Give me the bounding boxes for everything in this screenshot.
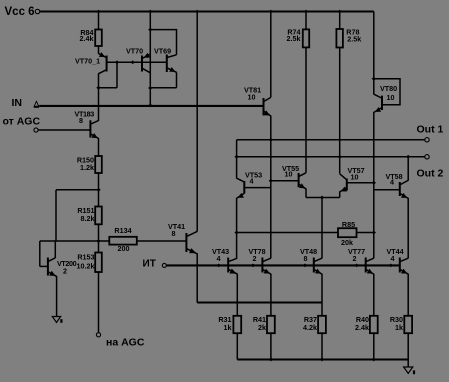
wire base bus — [107, 61, 167, 63]
svg-text:IN: IN — [12, 97, 23, 109]
wire VT44 emitter — [407, 274, 409, 316]
transistor VT57 — [340, 166, 365, 192]
resistor R78 — [336, 28, 361, 48]
resistor R153 — [77, 252, 102, 272]
svg-text:4: 4 — [250, 176, 254, 185]
node emitter join — [320, 196, 324, 200]
Out 2 terminal — [417, 155, 444, 180]
transistor VT53 — [237, 171, 263, 199]
node x150 bottom — [148, 86, 152, 90]
transistor VT55 — [282, 164, 306, 189]
wire branch down — [55, 190, 57, 241]
wire AGC base — [38, 129, 90, 131]
resistor R74 — [287, 28, 310, 48]
svg-text:4: 4 — [391, 254, 395, 263]
wire VT200 base stub — [40, 265, 48, 267]
transistor VT41 — [168, 222, 197, 254]
wire emitter join — [306, 197, 340, 199]
wire R41 bottom — [270, 333, 272, 359]
wire R84 top — [98, 12, 100, 30]
svg-text:8.2k: 8.2k — [81, 214, 95, 223]
svg-text:10: 10 — [351, 172, 359, 181]
wire Vcc corner down — [373, 12, 375, 95]
svg-text:2.4k: 2.4k — [80, 34, 94, 43]
transistor VT69 — [154, 47, 177, 73]
node Vcc-R84 — [96, 10, 100, 14]
node row241 — [96, 239, 100, 243]
ИТ terminal — [143, 258, 167, 269]
wire VT77 emitter — [373, 274, 375, 316]
wire row241 left — [40, 240, 110, 242]
transistor VT48 — [300, 247, 322, 274]
transistor VT58 — [386, 172, 409, 199]
wire R150-nodeA — [98, 173, 100, 207]
wire VT200 emitter — [56, 276, 58, 316]
wire VT58 emitter — [407, 198, 409, 258]
node bus R37 — [320, 358, 324, 362]
svg-text:2: 2 — [353, 254, 357, 263]
wire VT81 collector — [270, 12, 272, 98]
node base55 — [269, 179, 273, 183]
wire VT70_1 collector — [98, 73, 100, 88]
svg-text:8: 8 — [172, 229, 176, 238]
wire R85 right — [357, 232, 374, 234]
svg-text:4: 4 — [217, 254, 221, 263]
svg-text:8: 8 — [304, 254, 308, 263]
wire VT183 collector — [98, 88, 100, 121]
resistor R31 — [218, 315, 241, 333]
ground left — [52, 317, 62, 323]
resistor R134 — [109, 226, 137, 253]
svg-text:4.2k: 4.2k — [303, 323, 317, 332]
wire VT80 base loop — [374, 79, 400, 105]
svg-text:2.5k: 2.5k — [287, 34, 301, 43]
wire row241 right — [137, 240, 187, 242]
wire emitter bus — [197, 301, 322, 303]
svg-text:от AGC: от AGC — [3, 115, 41, 127]
node Vcc-R78 — [338, 10, 342, 14]
svg-text:1k: 1k — [224, 323, 232, 332]
svg-text:VT70: VT70 — [126, 47, 143, 56]
node ИТ VT48 — [303, 264, 307, 268]
wire IN line — [39, 105, 263, 107]
wire R85 left — [237, 232, 338, 234]
wire R31 bottom — [236, 333, 238, 359]
на AGC terminal — [96, 333, 144, 349]
resistor R37 — [303, 315, 326, 333]
wire R78 down — [339, 48, 341, 174]
wire VT81 emitter — [270, 116, 272, 140]
node Vcc-R74 — [304, 10, 308, 14]
wire R84 bottom — [98, 46, 100, 54]
svg-text:VT58: VT58 — [386, 172, 403, 181]
resistor R40 — [355, 315, 378, 333]
resistor R84 — [80, 28, 102, 46]
node VT80 loop — [372, 77, 376, 81]
wire Vcc rail — [40, 10, 374, 12]
node Vcc-VT41 — [195, 10, 199, 14]
svg-text:VT183: VT183 — [75, 109, 95, 118]
wire VT43 emitter — [236, 274, 238, 316]
svg-text:10: 10 — [387, 93, 395, 102]
svg-text:2: 2 — [253, 254, 257, 263]
wire R151 bottom — [98, 224, 100, 252]
wire VT55 emitter — [305, 189, 307, 198]
node Out2 left — [234, 155, 238, 159]
node IN junction — [148, 104, 152, 108]
wire Vcc drop x196 — [196, 12, 198, 232]
wire base net left — [270, 140, 272, 258]
node R85 right — [372, 231, 376, 235]
transistor VT183 — [75, 109, 99, 138]
wire VT80 emitter — [373, 112, 375, 258]
svg-text:VT44: VT44 — [387, 247, 404, 256]
wire branch left — [56, 189, 99, 191]
wire R30 bottom — [407, 333, 409, 359]
wire VT183 emitter — [98, 138, 100, 156]
wire Vcc drop x150 — [149, 12, 151, 106]
node R85 left — [234, 231, 238, 235]
svg-text:VT43: VT43 — [212, 247, 229, 256]
node Vcc-VT81 — [269, 10, 273, 14]
resistor R85 — [338, 220, 357, 247]
node Out2 VT58 — [406, 155, 410, 159]
svg-text:на AGC: на AGC — [106, 337, 145, 349]
wire VT48 emitter — [321, 274, 323, 316]
wire Out1 corner — [236, 140, 238, 179]
wire ИТ row — [166, 264, 399, 266]
transistor VT70_1 — [75, 52, 107, 74]
wire ground bus — [237, 358, 408, 360]
Out 1 terminal — [417, 124, 444, 142]
svg-text:Out 2: Out 2 — [417, 168, 444, 180]
node base mid — [131, 60, 135, 64]
node Out2 R78 — [338, 155, 342, 159]
node ИТ VT43 — [217, 264, 221, 268]
wire join down — [321, 198, 323, 259]
node ИТ VT78 — [251, 264, 255, 268]
node base tie — [115, 60, 119, 64]
wire VT55 base — [271, 180, 299, 182]
node bus R41 — [269, 358, 273, 362]
wire mirror right loop — [150, 72, 176, 88]
svg-text:10.2k: 10.2k — [77, 262, 95, 271]
svg-text:VT53: VT53 — [245, 171, 262, 180]
svg-text:10: 10 — [285, 170, 293, 179]
svg-text:Out 1: Out 1 — [417, 124, 444, 136]
node Vcc-mirror — [148, 10, 152, 14]
svg-text:VT80: VT80 — [380, 84, 397, 93]
transistor VT44 — [387, 247, 409, 274]
wire R74 down — [305, 47, 307, 172]
IN terminal — [12, 97, 40, 109]
wire R153 bottom — [98, 272, 100, 333]
svg-text:VT77: VT77 — [348, 247, 365, 256]
transistor VT43 — [212, 247, 237, 274]
wire VT58 base — [374, 189, 400, 191]
wire Out1 line — [237, 139, 425, 141]
svg-text:1k: 1k — [395, 323, 403, 332]
svg-text:R134: R134 — [114, 226, 131, 235]
transistor VT80 — [374, 84, 397, 113]
node VT70_1 col — [96, 86, 100, 90]
wire Out2 line — [237, 156, 425, 158]
svg-text:2.5k: 2.5k — [347, 35, 361, 44]
node ИТ VT44 — [389, 264, 393, 268]
wire VT69 top loop — [150, 30, 176, 55]
resistor R151 — [77, 206, 101, 225]
wire VT78 emitter — [270, 274, 272, 316]
ground right — [404, 367, 416, 374]
svg-text:ИТ: ИТ — [143, 258, 156, 269]
wire VT57 emitter — [339, 192, 341, 198]
node x150 loop — [148, 28, 152, 32]
svg-text:VT69: VT69 — [154, 47, 171, 56]
Vcc terminal — [5, 6, 40, 18]
svg-text:1.2k: 1.2k — [80, 163, 94, 172]
wire VT53 emitter — [236, 198, 238, 258]
node bus R40 — [372, 358, 376, 362]
node Out1 VT81 — [269, 138, 273, 142]
svg-text:R85: R85 — [342, 220, 355, 229]
svg-text:Vcc 6: Vcc 6 — [5, 6, 35, 18]
wire VT58 collector — [407, 157, 409, 181]
node base57 — [372, 181, 376, 185]
svg-text:R153: R153 — [77, 252, 94, 261]
transistor VT78 — [249, 247, 271, 274]
svg-text:2.4k: 2.4k — [355, 323, 369, 332]
svg-text:8: 8 — [79, 116, 83, 125]
wire VT57 base — [347, 182, 374, 184]
wire R74 top — [305, 12, 307, 30]
svg-text:10: 10 — [248, 92, 256, 101]
resistor R30 — [390, 315, 412, 333]
svg-text:2: 2 — [63, 266, 67, 275]
wire VT41 emitter — [196, 253, 198, 302]
svg-text:VT70_1: VT70_1 — [75, 57, 100, 66]
resistor R41 — [253, 315, 275, 333]
resistor R150 — [77, 156, 102, 174]
wire R37 bottom — [321, 333, 323, 359]
transistor VT81 — [244, 86, 271, 117]
svg-text:2k: 2k — [258, 323, 266, 332]
wire mirror left loop — [99, 62, 118, 88]
wire VT200 loop — [40, 241, 56, 266]
svg-text:200: 200 — [118, 244, 130, 253]
от AGC terminal — [3, 115, 41, 132]
node A — [96, 188, 100, 192]
node ИТ VT77 — [354, 264, 358, 268]
svg-text:4: 4 — [390, 177, 394, 186]
transistor VT70 — [126, 47, 150, 73]
wire R78 top — [339, 12, 341, 30]
wire VT53 base — [244, 187, 270, 189]
wire R40 bottom — [373, 333, 375, 359]
wire ground stub — [407, 360, 409, 368]
transistor VT200 — [48, 258, 77, 277]
transistor VT77 — [348, 247, 374, 274]
svg-text:VT78: VT78 — [249, 247, 266, 256]
svg-text:20k: 20k — [341, 238, 353, 247]
